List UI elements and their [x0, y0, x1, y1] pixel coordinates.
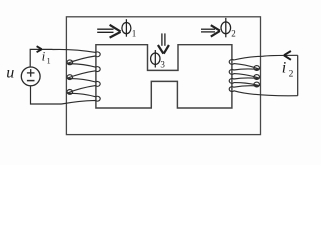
wire: right side down	[297, 55, 299, 95]
svg-text:2: 2	[231, 29, 236, 39]
winding 2 (right coil on right limb)	[229, 56, 297, 95]
flux arrow phi1	[97, 25, 120, 38]
wire: winding 1 bottom back to source	[31, 86, 62, 104]
winding 1 (left coil on left limb)	[53, 49, 101, 104]
wire: source top up and right to winding	[30, 49, 52, 67]
svg-text:i: i	[282, 59, 286, 76]
core outer boundary	[66, 17, 260, 135]
svg-text:3: 3	[160, 60, 165, 70]
current arrow i1	[37, 46, 42, 52]
wire: winding 2 top lead to the right	[263, 55, 298, 56]
flux arrow phi2	[201, 25, 220, 36]
svg-text:2: 2	[289, 70, 294, 80]
label phi3	[151, 50, 166, 70]
voltage source u	[21, 67, 40, 86]
svg-text:u: u	[6, 65, 14, 82]
label phi1	[122, 19, 136, 38]
svg-text:1: 1	[47, 56, 51, 65]
flux arrow phi3 (downward into air gap)	[158, 33, 169, 53]
core windows and center-limb air gap outline	[96, 45, 232, 108]
svg-text:1: 1	[132, 29, 137, 39]
svg-text:i: i	[42, 48, 46, 63]
label phi2	[221, 18, 236, 39]
current arrow i2	[284, 51, 291, 60]
